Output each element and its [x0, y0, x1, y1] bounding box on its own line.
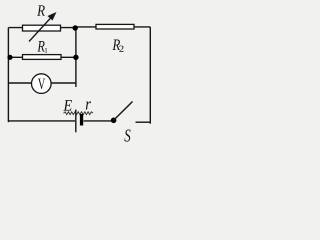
battery E: internal resistance zigzag	[64, 112, 94, 115]
wire: bottom run left (to battery)	[8, 120, 75, 122]
wire: bottom run right (battery to switch pivot)	[84, 120, 113, 122]
label R2	[112, 40, 120, 50]
wire: left bus	[7, 28, 9, 123]
node: junction dot R1 right	[73, 55, 78, 60]
label E	[63, 100, 72, 110]
label r	[86, 101, 91, 109]
voltmeter V	[32, 74, 52, 94]
wire: right bus	[149, 27, 151, 124]
wire: top run right (junction to right bus)	[76, 26, 150, 28]
resistor R1	[23, 55, 62, 60]
resistor R2	[96, 24, 134, 29]
switch S blade	[114, 102, 133, 121]
label R	[37, 5, 45, 15]
switch S pivot dot	[111, 118, 117, 124]
label S	[124, 130, 130, 142]
wire: top run left (left bus to junction)	[8, 27, 76, 29]
resistor R (rheostat body)	[23, 25, 61, 31]
wire: R1 row	[8, 56, 76, 58]
wire: middle bus	[75, 27, 77, 87]
label R1	[37, 41, 44, 51]
battery plate short (thick)	[80, 114, 83, 126]
wire: switch fixed-contact stub	[136, 121, 151, 123]
rheostat arrow	[29, 12, 57, 42]
battery plate long (thin)	[75, 110, 77, 133]
node: junction dot R1 left	[7, 55, 12, 60]
wire: voltmeter row	[8, 82, 76, 84]
node: junction dot top (rheostat/R2/middle bus)	[73, 25, 78, 30]
